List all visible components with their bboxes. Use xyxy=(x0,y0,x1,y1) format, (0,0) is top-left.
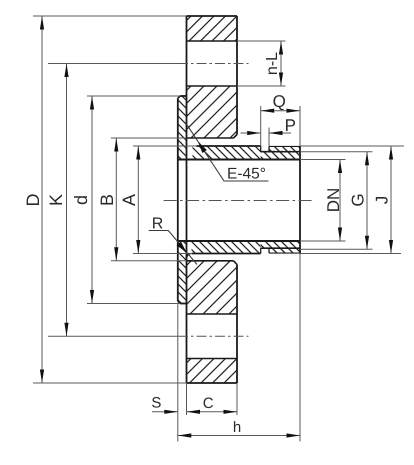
dimension D bottom arrow xyxy=(40,370,44,384)
dimension DN line xyxy=(339,160,341,242)
neck OD bottom line xyxy=(192,253,261,255)
groove bottom left wall xyxy=(260,248,262,253)
dimension B top arrow xyxy=(114,138,118,152)
svg-text:DN: DN xyxy=(324,188,343,213)
extension line n-L bottom xyxy=(237,85,286,87)
svg-text:J: J xyxy=(373,196,392,205)
svg-text:D: D xyxy=(23,194,43,207)
top bolt hole lower edge xyxy=(187,85,238,87)
extension line G bottom xyxy=(300,248,373,250)
svg-text:Q: Q xyxy=(273,92,286,111)
dimension B line xyxy=(115,138,117,261)
extension line S and h left xyxy=(177,304,179,442)
dimension P left tail and arrow xyxy=(241,132,261,134)
extension line J bottom xyxy=(300,253,401,255)
dimension D top arrow xyxy=(40,16,44,30)
extension line G top xyxy=(300,151,373,153)
dimension DN bottom arrow xyxy=(338,228,342,242)
svg-text:n-L: n-L xyxy=(264,52,281,75)
flange plate right face upper xyxy=(236,16,238,135)
bottom bolt hole centerline dash-dot part xyxy=(178,335,249,337)
neck thread root bottom line xyxy=(261,247,300,249)
dimension h left arrow xyxy=(178,433,192,437)
flange bore upper line (diameter B) xyxy=(187,137,234,139)
extension line D bottom xyxy=(33,382,187,384)
lap collar bottom-left corner chamfer xyxy=(178,301,180,303)
extension line DN bottom xyxy=(300,240,346,242)
neck thread crest bottom thin line xyxy=(269,252,300,254)
bottom bolt hole centerline solid part xyxy=(48,335,178,337)
dimension B bottom arrow xyxy=(114,247,118,261)
dimension J line xyxy=(390,146,392,254)
flange bore lower right chamfer xyxy=(234,261,238,265)
flange bore upper right chamfer xyxy=(234,135,238,139)
dimension C right arrow xyxy=(224,410,238,414)
extension line neck end up xyxy=(299,106,301,146)
extension line B top xyxy=(111,137,187,139)
extension line d top xyxy=(87,95,180,97)
flange plate bottom edge xyxy=(187,382,238,384)
svg-text:h: h xyxy=(233,419,241,436)
dimension d line xyxy=(91,96,93,304)
dimension P right tail and arrow xyxy=(269,132,291,134)
dimension Q left arrow xyxy=(261,109,275,113)
dimension K bottom arrow xyxy=(64,323,68,337)
extension line C left xyxy=(186,383,188,415)
dimension d bottom arrow xyxy=(90,290,94,304)
extension line P right (groove right wall up) xyxy=(268,128,270,147)
extension line J top xyxy=(300,145,404,147)
svg-text:B: B xyxy=(97,194,117,206)
dimension Q right arrow xyxy=(287,109,301,113)
svg-text:P: P xyxy=(285,116,296,135)
leader R arrowhead xyxy=(177,241,189,254)
extension line A bottom xyxy=(133,253,192,255)
neck thread crest top thin line xyxy=(269,145,300,147)
dimension A top arrow xyxy=(136,146,140,160)
extension line DN top xyxy=(300,159,346,161)
flange bore lower line (diameter B) xyxy=(187,260,234,262)
extension line neck end down to h xyxy=(299,254,301,442)
svg-text:d: d xyxy=(71,195,91,205)
dimension D line xyxy=(41,16,43,383)
svg-text:S: S xyxy=(151,395,161,412)
dimension C left arrow xyxy=(187,410,201,414)
svg-text:G: G xyxy=(349,193,368,206)
dimension G top arrow xyxy=(365,152,369,166)
dimension J bottom arrow xyxy=(389,240,393,254)
svg-text:C: C xyxy=(203,395,214,412)
lap collar left face xyxy=(177,98,179,301)
neck end face xyxy=(299,146,301,253)
extension line n-L top xyxy=(237,40,286,42)
flange plate top edge xyxy=(187,15,238,17)
extension line A top xyxy=(133,145,197,147)
lap collar bottom edge xyxy=(180,303,186,305)
dimension n-L line xyxy=(280,41,282,86)
extension line d bottom xyxy=(87,303,180,305)
dimension A line xyxy=(137,146,139,254)
groove top left wall xyxy=(260,146,262,152)
dimension J top arrow xyxy=(389,146,393,160)
svg-text:K: K xyxy=(46,194,66,206)
neck OD top line xyxy=(197,145,261,147)
groove top right wall xyxy=(268,146,270,151)
leader E-45 arrowhead xyxy=(196,140,207,153)
extension line B bottom xyxy=(111,260,187,262)
dimension G line xyxy=(366,152,368,250)
flange plate left face xyxy=(186,16,188,383)
svg-text:A: A xyxy=(119,194,139,206)
dimension Q line xyxy=(261,110,300,112)
dimension A bottom arrow xyxy=(136,240,140,254)
svg-text:R: R xyxy=(152,215,164,232)
dimension K top arrow xyxy=(64,64,68,78)
dimension h right arrow xyxy=(287,433,301,437)
dimension n-L top arrow xyxy=(279,41,283,55)
leader E-45 polyline xyxy=(186,123,269,182)
neck bore top line xyxy=(178,159,300,161)
leader R polyline xyxy=(149,231,197,265)
top bolt hole upper edge xyxy=(187,40,238,42)
dimension S tail and arrow xyxy=(152,411,178,413)
dimension h line xyxy=(178,435,300,437)
extension line C right xyxy=(236,383,238,415)
lap collar top edge xyxy=(180,95,186,97)
top bolt hole centerline dash-dot part xyxy=(178,63,249,65)
lap collar top-left corner chamfer xyxy=(178,96,180,98)
dimension d top arrow xyxy=(90,96,94,110)
dimension G bottom arrow xyxy=(365,236,369,250)
top bolt hole centerline solid part xyxy=(48,63,178,65)
dimension C line xyxy=(187,411,238,413)
bottom bolt hole upper edge xyxy=(187,313,238,315)
neck fillet radius R arc xyxy=(187,254,192,259)
neck thread root top line xyxy=(261,151,300,153)
extension line D top xyxy=(33,15,187,17)
dimension n-L bottom arrow xyxy=(279,73,283,87)
dimension K line xyxy=(66,64,68,337)
extension line Q left (groove left wall up) xyxy=(260,106,262,146)
flange plate right face lower xyxy=(236,265,238,384)
main centerline xyxy=(164,200,312,202)
neck bore bottom line xyxy=(178,240,300,242)
bottom bolt hole lower edge xyxy=(187,358,238,360)
svg-text:E-45°: E-45° xyxy=(227,166,266,183)
groove bottom right wall xyxy=(268,248,270,253)
dimension DN top arrow xyxy=(338,160,342,174)
